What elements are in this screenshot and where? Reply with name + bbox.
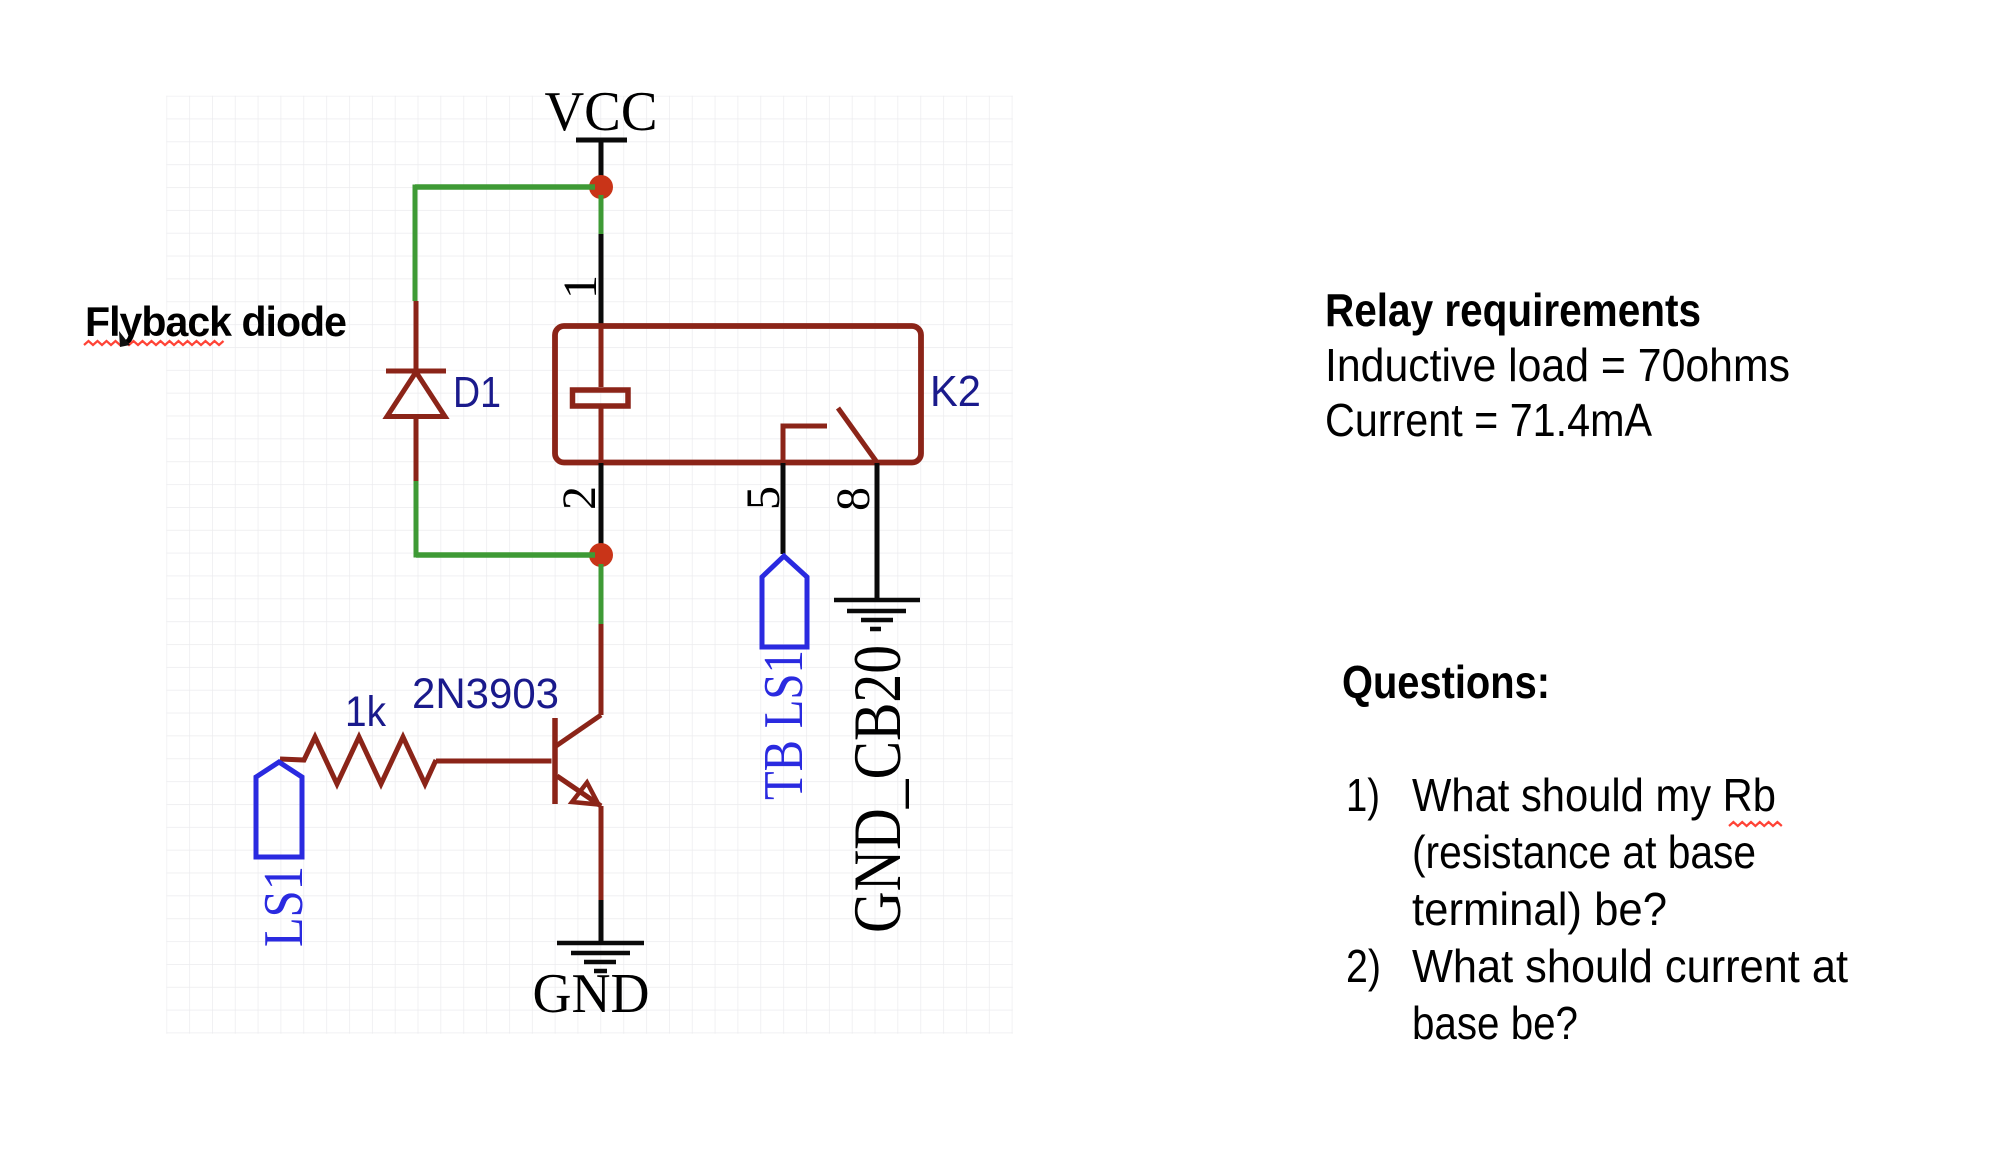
svg-text:(resistance at base: (resistance at base (1412, 826, 1756, 878)
relay coil wire bottom (599, 408, 604, 462)
resistor 1k (280, 737, 436, 784)
svg-text:K2: K2 (930, 367, 981, 416)
svg-text:Inductive load = 70ohms: Inductive load = 70ohms (1325, 339, 1790, 391)
power VCC symbol (545, 81, 658, 143)
wire VCC to junction (599, 140, 604, 183)
relay coil wire top (599, 326, 604, 387)
wire green lower horizontal (416, 552, 595, 558)
ground GND emitter (557, 943, 644, 971)
wire pin2 black (599, 463, 604, 549)
wire emitter black (599, 900, 604, 941)
ground GND_CB20 symbol (834, 600, 920, 629)
relay switch blade (838, 408, 876, 461)
junction node collector (589, 543, 613, 567)
svg-text:8: 8 (827, 487, 880, 511)
relay contact L (783, 426, 827, 460)
wire pin1 black (599, 234, 604, 324)
svg-text:2: 2 (553, 486, 606, 510)
transistor Q1 2N3903 (436, 624, 601, 900)
wire green below junction (599, 564, 604, 624)
svg-text:Relay requirements: Relay requirements (1325, 284, 1701, 336)
svg-text:What should my Rb: What should my Rb (1412, 769, 1776, 821)
svg-text:2): 2) (1346, 940, 1381, 992)
cursor (119, 331, 130, 347)
net flag LS1 (256, 762, 302, 857)
squiggle under Flyback (84, 341, 224, 345)
squiggle under Rb (1729, 822, 1782, 826)
svg-text:base be?: base be? (1412, 997, 1578, 1049)
svg-text:2N3903: 2N3903 (412, 670, 559, 718)
net flag TB LS1 (762, 556, 807, 647)
wire green lower left vertical (414, 481, 419, 558)
svg-text:GND_CB20: GND_CB20 (839, 645, 915, 933)
svg-text:What should current at: What should current at (1412, 940, 1848, 992)
svg-text:VCC: VCC (545, 81, 658, 143)
svg-text:GND: GND (533, 963, 650, 1025)
svg-text:terminal) be?: terminal) be? (1412, 883, 1667, 935)
svg-text:1k: 1k (345, 688, 386, 736)
wire pin8 black (875, 463, 880, 598)
junction node VCC (589, 175, 613, 199)
svg-text:5: 5 (737, 486, 790, 510)
wire green left vertical to diode (413, 185, 418, 302)
wire green VCC horizontal (415, 184, 595, 190)
svg-text:LS1: LS1 (253, 866, 315, 947)
wire pin5 black (781, 463, 786, 554)
svg-text:Current = 71.4mA: Current = 71.4mA (1325, 394, 1652, 446)
relay K2 body (555, 326, 921, 463)
svg-text:D1: D1 (453, 368, 501, 417)
svg-text:1): 1) (1346, 769, 1380, 821)
wire green below VCC junction (599, 195, 604, 234)
relay coil (573, 390, 629, 406)
svg-text:1: 1 (554, 275, 607, 299)
svg-text:TB LS1: TB LS1 (753, 650, 815, 800)
svg-text:Questions:: Questions: (1342, 656, 1550, 708)
diode D1 (386, 301, 446, 481)
